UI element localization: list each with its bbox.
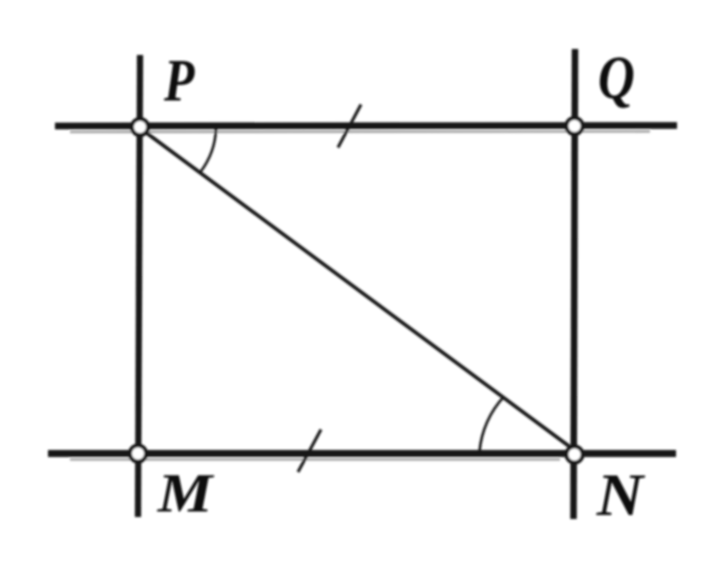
tick mark on MN (298, 430, 321, 473)
wire diagonal PN (141, 129, 574, 450)
angle arc at N (480, 397, 505, 452)
svg-text:Q: Q (598, 45, 635, 112)
wire bottom horizontal line through M and N (48, 450, 676, 457)
angle arc at P (200, 129, 216, 173)
svg-text:M: M (157, 463, 215, 524)
scan shadow under top line (70, 130, 650, 133)
node Q (567, 118, 583, 134)
tick mark on PQ (338, 105, 361, 148)
wire right vertical line through Q and N (574, 49, 576, 519)
wire left vertical line through P and M (138, 55, 140, 517)
svg-text:N: N (596, 463, 646, 529)
node P (132, 119, 148, 135)
scan shadow under bottom line (70, 458, 560, 461)
svg-text:P: P (163, 47, 196, 113)
node N (567, 447, 583, 463)
wire top horizontal line through P and Q (55, 122, 677, 129)
node M (130, 446, 146, 462)
